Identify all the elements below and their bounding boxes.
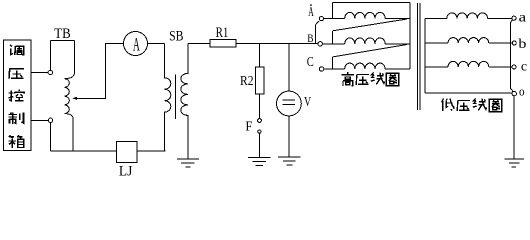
SB secondary winding bbox=[181, 44, 188, 159]
svg-text:A: A bbox=[308, 5, 314, 20]
wire down to voltmeter bbox=[288, 44, 290, 92]
LV star bus bbox=[424, 18, 426, 93]
autotransformer TB coil bbox=[65, 74, 75, 118]
wiper arrowhead bbox=[72, 97, 77, 100]
terminal circle C bbox=[319, 67, 323, 71]
svg-text:o: o bbox=[519, 84, 525, 99]
wire up to terminal A bbox=[315, 25, 317, 44]
wire down to TB coil bbox=[73, 41, 75, 74]
svg-text:V: V bbox=[304, 95, 311, 110]
voltmeter symbol lines bbox=[282, 100, 295, 104]
stub up from A bbox=[332, 3, 334, 19]
stub and diagonal C to B bbox=[332, 57, 334, 69]
stub and diagonal B to A bbox=[332, 31, 334, 44]
bottom bus wire to LJ bbox=[51, 150, 117, 152]
voltmeter V bbox=[277, 91, 302, 116]
ground under F bbox=[248, 158, 271, 166]
LV neutral wire o bbox=[425, 92, 512, 94]
wire down from terminal 2 bbox=[50, 123, 52, 151]
LV coil a bbox=[447, 13, 488, 18]
svg-text:a: a bbox=[519, 10, 527, 25]
terminal circle 2 bbox=[48, 118, 52, 122]
terminal circle b bbox=[512, 41, 516, 45]
main HV bus wire bbox=[236, 43, 318, 45]
HV phase A wire bbox=[323, 17, 345, 19]
wire down to R2 bbox=[259, 44, 261, 68]
ground under voltmeter bbox=[278, 157, 300, 165]
terminal circle A bbox=[319, 17, 323, 21]
SB primary winding bbox=[165, 44, 171, 151]
wire box terminal 1 bbox=[31, 72, 48, 74]
terminal circle c bbox=[512, 65, 516, 69]
svg-text:SB: SB bbox=[169, 29, 183, 45]
svg-text:R1: R1 bbox=[216, 25, 229, 41]
terminal circle F upper bbox=[258, 119, 262, 123]
svg-text:TB: TB bbox=[54, 26, 70, 42]
delta top wire bbox=[333, 2, 410, 4]
wire up from terminal 1 bbox=[49, 41, 51, 71]
LV phase a wire bbox=[425, 17, 512, 19]
ammeter A bbox=[124, 32, 148, 56]
HV coil C bbox=[345, 63, 385, 69]
relay LJ box bbox=[117, 141, 137, 162]
HV phase C wire bbox=[324, 68, 345, 70]
terminal circle a bbox=[512, 16, 516, 20]
wire ammeter to SB primary bbox=[148, 43, 165, 45]
svg-text:R2: R2 bbox=[240, 74, 254, 89]
delta right wire bbox=[409, 3, 411, 69]
HV phase B wire bbox=[322, 43, 344, 45]
control box 调压控制箱 bbox=[3, 40, 31, 150]
svg-text:b: b bbox=[518, 37, 526, 52]
svg-text:B: B bbox=[307, 31, 313, 45]
wire R2 to F terminal bbox=[259, 94, 261, 119]
svg-text:F: F bbox=[245, 120, 252, 135]
HV coil B bbox=[345, 38, 385, 44]
LV coil c bbox=[448, 61, 489, 66]
svg-text:c: c bbox=[521, 60, 527, 75]
ground under o bbox=[505, 159, 525, 167]
resistor R1 bbox=[210, 40, 236, 48]
wire SB secondary to R1 bbox=[188, 43, 210, 45]
TB bridge wire bbox=[50, 40, 74, 42]
terminal circle 1 bbox=[48, 70, 52, 74]
resistor R2 bbox=[256, 67, 265, 94]
wire LJ to SB bbox=[137, 150, 166, 152]
LV phase c wire bbox=[425, 66, 512, 68]
TB coil bottom lead bbox=[72, 117, 74, 151]
LV coil b bbox=[448, 38, 489, 43]
box text 调压控制箱 (vertical) bbox=[10, 45, 24, 55]
transformer core bars bbox=[416, 3, 418, 110]
wire box terminal 2 bbox=[31, 119, 48, 121]
wire o to ground bbox=[513, 96, 515, 159]
wire F to ground bbox=[258, 133, 260, 157]
svg-text:A: A bbox=[133, 34, 140, 55]
LV short bus bbox=[510, 20, 513, 92]
svg-text:C: C bbox=[307, 55, 314, 70]
wiper arrow wire bbox=[77, 44, 124, 99]
label 高压线圈 bbox=[342, 72, 355, 86]
SB core bbox=[175, 74, 177, 119]
SB ground bbox=[177, 159, 199, 167]
LV phase b wire bbox=[425, 42, 512, 44]
terminal circle o bbox=[512, 91, 516, 95]
terminal circle F lower bbox=[258, 130, 261, 133]
wire voltmeter to ground bbox=[288, 116, 290, 157]
terminal circle B bbox=[318, 42, 322, 46]
HV coil A bbox=[345, 12, 385, 18]
label 低压线圈 bbox=[442, 99, 455, 112]
svg-text:LJ: LJ bbox=[119, 164, 133, 180]
